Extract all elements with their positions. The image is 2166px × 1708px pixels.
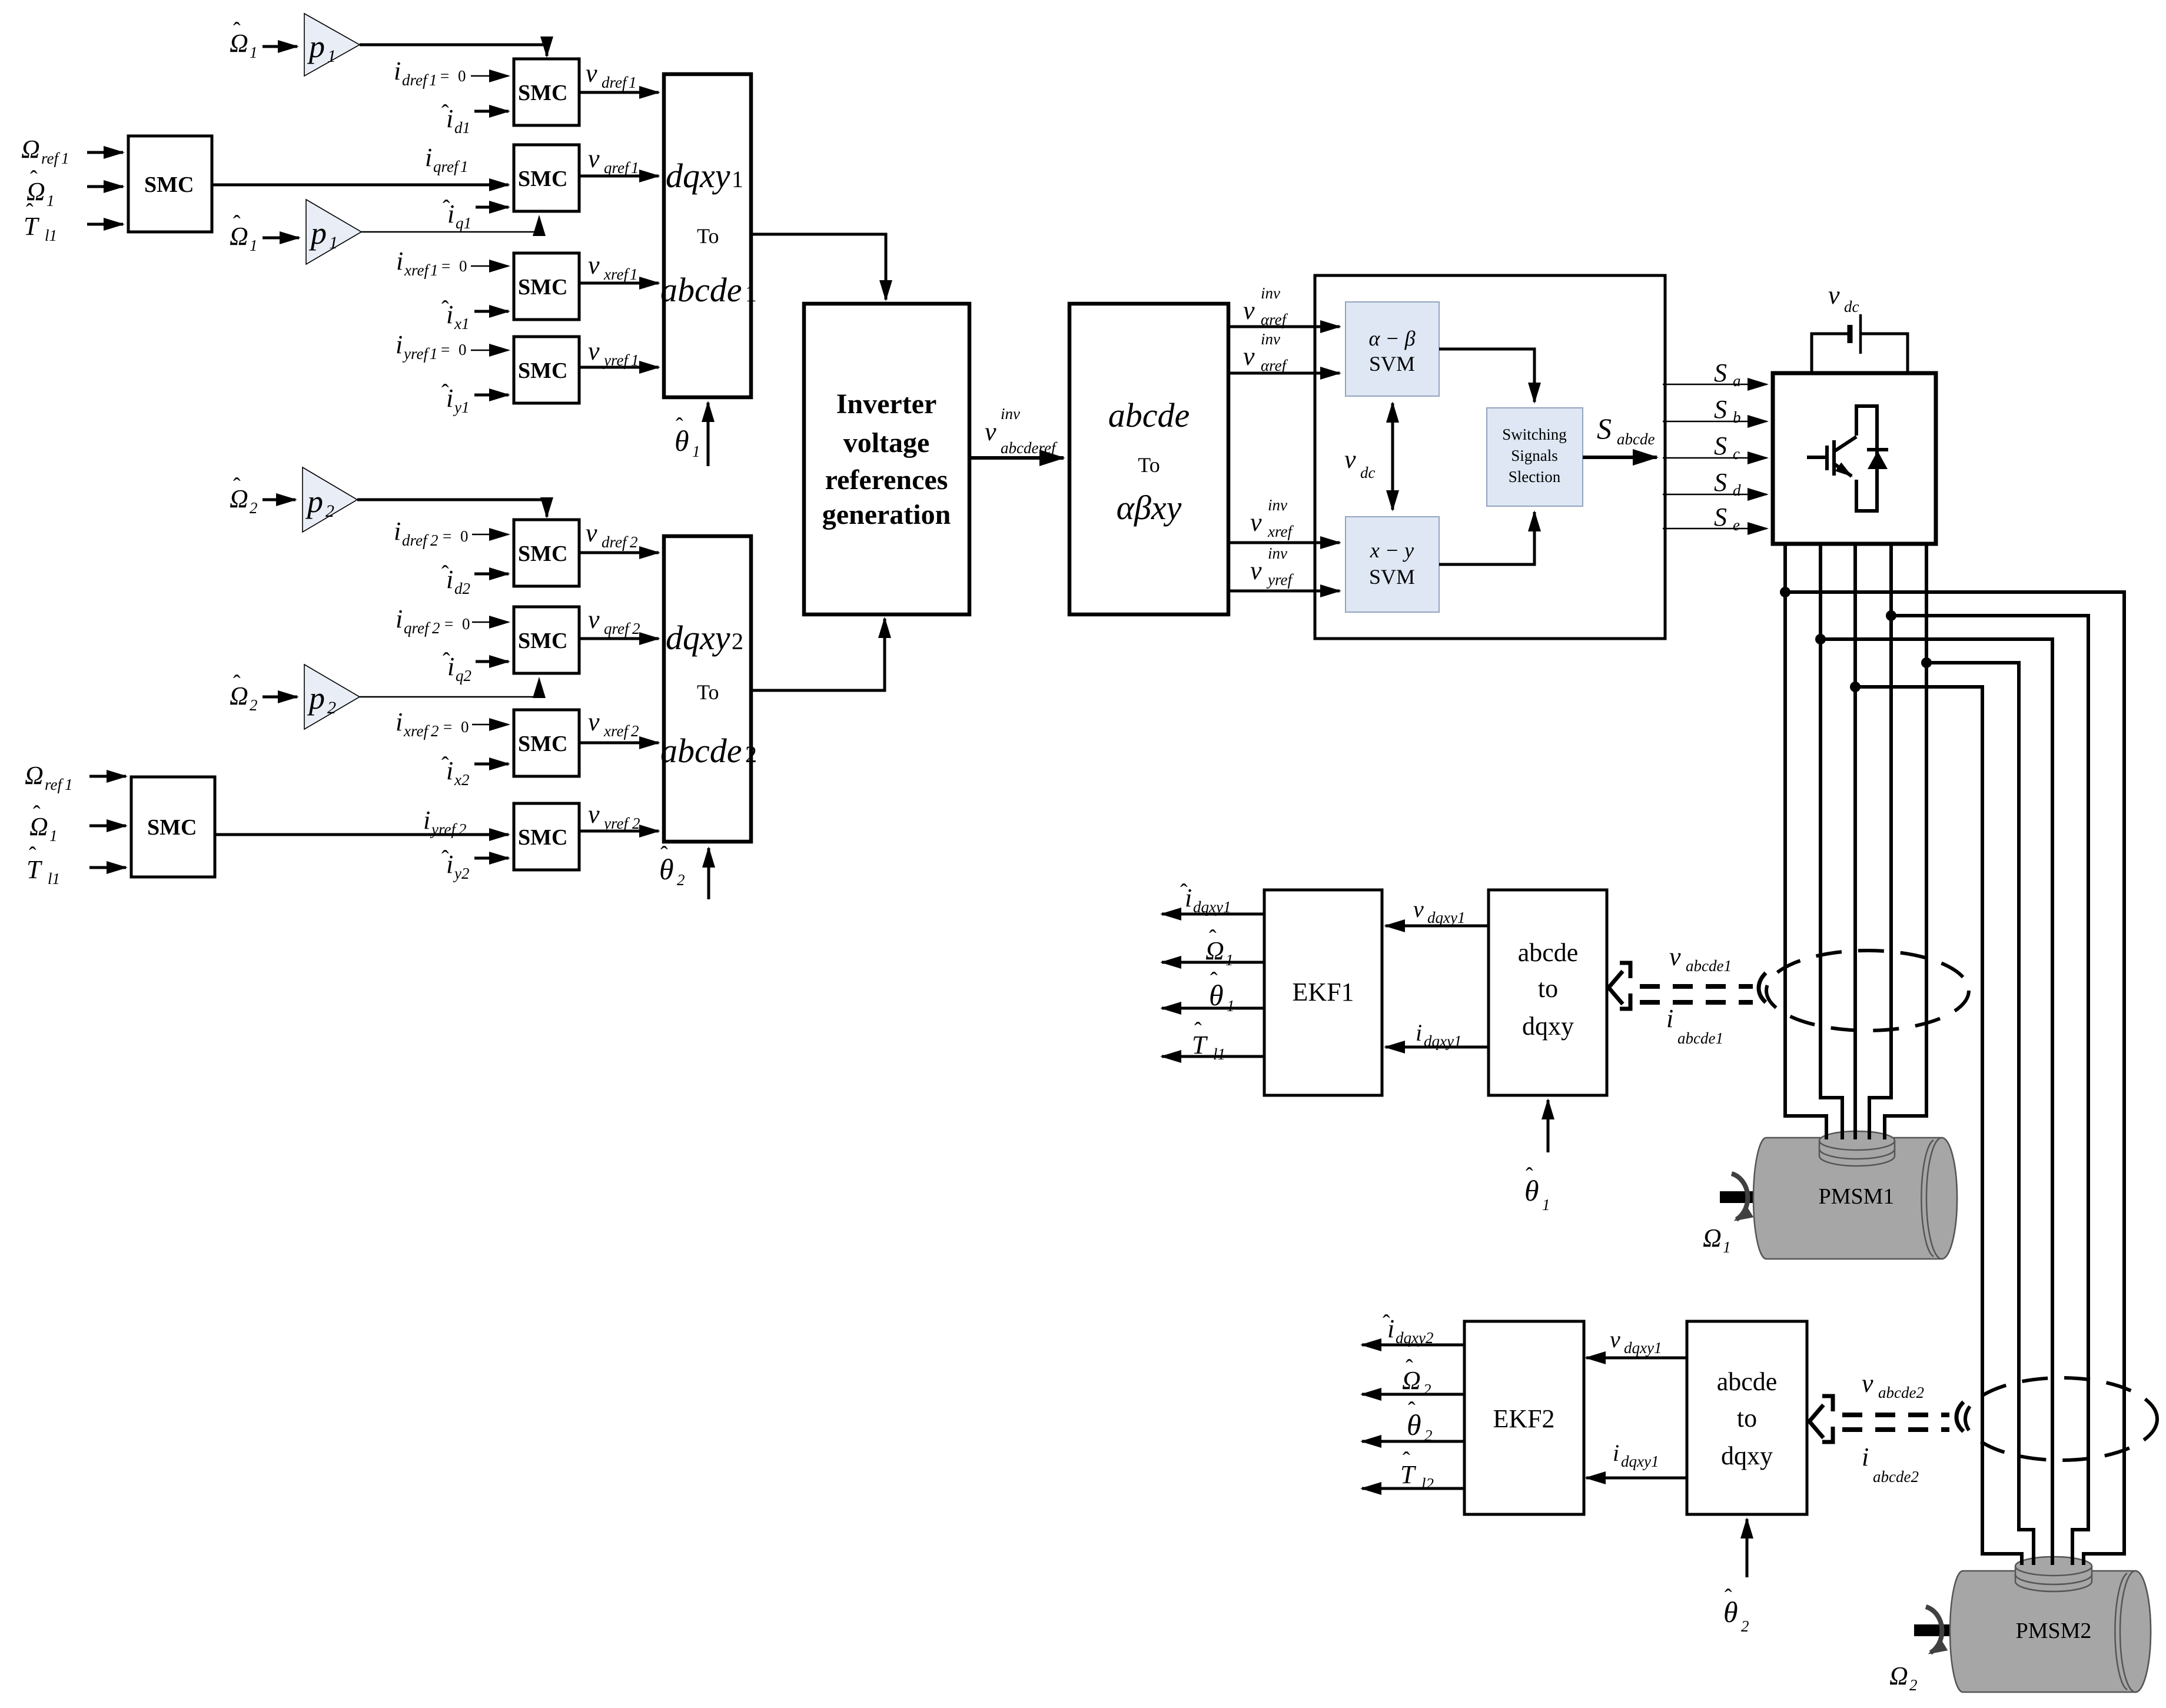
svg-text:αβxy: αβxy bbox=[1117, 489, 1182, 527]
svg-text:x2: x2 bbox=[454, 771, 469, 789]
svg-text:SVM: SVM bbox=[1369, 565, 1415, 589]
svg-text:Ω: Ω bbox=[1889, 1662, 1908, 1690]
svg-text:S: S bbox=[1714, 358, 1727, 387]
svg-text:Switching: Switching bbox=[1502, 426, 1567, 443]
svg-text:2: 2 bbox=[1423, 1381, 1431, 1398]
svg-text:1: 1 bbox=[630, 265, 638, 283]
svg-text:1: 1 bbox=[327, 46, 336, 66]
svg-text:ˆ: ˆ bbox=[1526, 1164, 1533, 1188]
svg-text:abcde2: abcde2 bbox=[1878, 1384, 1924, 1401]
svg-text:abcderef: abcderef bbox=[1001, 439, 1058, 457]
svg-text:ˆ: ˆ bbox=[660, 842, 668, 867]
svg-text:1: 1 bbox=[1723, 1238, 1731, 1256]
svg-text:p: p bbox=[307, 29, 325, 64]
svg-text:Ω: Ω bbox=[21, 135, 40, 164]
svg-text:yref: yref bbox=[1266, 571, 1294, 589]
svg-text:1: 1 bbox=[732, 166, 743, 192]
svg-text:dqxy2: dqxy2 bbox=[1396, 1329, 1433, 1347]
svg-text:PMSM2: PMSM2 bbox=[2016, 1619, 2092, 1643]
svg-text:q2: q2 bbox=[456, 667, 471, 684]
svg-text:v: v bbox=[1250, 556, 1262, 585]
svg-text:ˆ: ˆ bbox=[441, 846, 449, 871]
svg-text:=: = bbox=[443, 527, 451, 545]
svg-text:ˆ: ˆ bbox=[441, 561, 449, 586]
svg-text:2: 2 bbox=[632, 620, 640, 637]
svg-text:ˆ: ˆ bbox=[1180, 880, 1188, 905]
svg-text:1: 1 bbox=[745, 280, 757, 307]
svg-text:b: b bbox=[1733, 408, 1741, 426]
svg-text:SMC: SMC bbox=[144, 172, 194, 197]
svg-text:to: to bbox=[1538, 974, 1558, 1003]
svg-text:dref: dref bbox=[402, 531, 429, 549]
svg-text:2: 2 bbox=[1741, 1617, 1749, 1635]
svg-text:ˆ: ˆ bbox=[233, 671, 241, 696]
svg-text:=: = bbox=[441, 341, 450, 358]
svg-text:1: 1 bbox=[46, 192, 55, 210]
svg-text:y1: y1 bbox=[453, 398, 469, 416]
svg-text:1: 1 bbox=[49, 827, 58, 845]
svg-text:dqxy1: dqxy1 bbox=[1424, 1032, 1461, 1050]
svg-text:v: v bbox=[1250, 508, 1262, 537]
svg-text:v: v bbox=[1610, 1326, 1620, 1353]
svg-text:e: e bbox=[1733, 516, 1740, 534]
svg-text:dqxy1: dqxy1 bbox=[1621, 1453, 1659, 1470]
svg-text:2: 2 bbox=[459, 820, 467, 838]
svg-text:SMC: SMC bbox=[518, 167, 567, 191]
svg-text:1: 1 bbox=[460, 158, 469, 175]
svg-text:EKF2: EKF2 bbox=[1493, 1404, 1554, 1433]
svg-text:αref: αref bbox=[1261, 311, 1288, 328]
svg-text:S: S bbox=[1714, 468, 1727, 497]
svg-text:abcde1: abcde1 bbox=[1686, 957, 1732, 975]
svg-text:To: To bbox=[697, 680, 719, 704]
svg-text:abcde: abcde bbox=[1617, 430, 1655, 448]
svg-text:dqxy: dqxy bbox=[1721, 1441, 1773, 1470]
svg-text:2: 2 bbox=[677, 871, 685, 889]
svg-text:dqxy: dqxy bbox=[1522, 1012, 1574, 1041]
svg-text:2: 2 bbox=[432, 619, 440, 637]
svg-text:1: 1 bbox=[1225, 951, 1234, 969]
svg-text:v: v bbox=[586, 519, 597, 547]
svg-text:ˆ: ˆ bbox=[1383, 1311, 1390, 1335]
svg-text:=: = bbox=[440, 67, 449, 85]
svg-text:a: a bbox=[1733, 372, 1741, 390]
svg-text:SVM: SVM bbox=[1369, 352, 1415, 376]
svg-text:EKF1: EKF1 bbox=[1292, 978, 1354, 1006]
svg-text:dc: dc bbox=[1844, 298, 1859, 315]
svg-text:1: 1 bbox=[250, 237, 258, 254]
svg-text:ˆ: ˆ bbox=[1406, 1355, 1413, 1380]
svg-text:2: 2 bbox=[1909, 1676, 1918, 1694]
svg-text:dref: dref bbox=[602, 74, 629, 91]
svg-text:p: p bbox=[305, 484, 323, 519]
svg-text:Ω: Ω bbox=[25, 761, 44, 790]
svg-text:0: 0 bbox=[462, 615, 470, 633]
svg-text:i: i bbox=[1416, 1019, 1422, 1046]
svg-text:abcde: abcde bbox=[660, 732, 742, 770]
svg-text:=: = bbox=[443, 718, 452, 736]
svg-text:1: 1 bbox=[430, 261, 438, 279]
svg-text:i: i bbox=[1862, 1443, 1869, 1471]
svg-text:1: 1 bbox=[65, 776, 73, 793]
svg-text:S: S bbox=[1714, 431, 1727, 460]
svg-text:l1: l1 bbox=[45, 227, 57, 244]
svg-text:SMC: SMC bbox=[518, 732, 567, 756]
svg-text:0: 0 bbox=[460, 527, 469, 545]
svg-text:inv: inv bbox=[1261, 330, 1280, 348]
svg-text:d1: d1 bbox=[454, 119, 470, 137]
svg-text:inv: inv bbox=[1261, 284, 1280, 302]
svg-text:i: i bbox=[425, 143, 432, 172]
svg-text:ref: ref bbox=[45, 776, 64, 793]
svg-text:v: v bbox=[588, 605, 600, 634]
svg-text:i: i bbox=[1613, 1440, 1619, 1466]
svg-text:ˆ: ˆ bbox=[443, 649, 450, 673]
svg-text:c: c bbox=[1733, 445, 1740, 463]
svg-text:0: 0 bbox=[459, 341, 467, 358]
svg-text:2: 2 bbox=[327, 698, 336, 717]
svg-text:inv: inv bbox=[1268, 496, 1287, 514]
svg-text:i: i bbox=[396, 330, 403, 359]
svg-text:αref: αref bbox=[1261, 357, 1288, 374]
svg-text:0: 0 bbox=[458, 67, 466, 85]
svg-text:2: 2 bbox=[732, 628, 743, 654]
svg-text:S: S bbox=[1714, 395, 1727, 424]
svg-text:i: i bbox=[396, 604, 403, 633]
svg-text:SMC: SMC bbox=[518, 629, 567, 653]
svg-text:Slection: Slection bbox=[1509, 468, 1561, 486]
svg-text:0: 0 bbox=[459, 257, 467, 275]
svg-text:ˆ: ˆ bbox=[29, 843, 36, 868]
svg-text:l1: l1 bbox=[1213, 1045, 1225, 1063]
svg-text:xref: xref bbox=[404, 261, 430, 279]
svg-text:v: v bbox=[1862, 1369, 1873, 1398]
svg-text:1: 1 bbox=[1542, 1196, 1550, 1214]
svg-text:qref: qref bbox=[604, 159, 631, 177]
svg-text:inv: inv bbox=[1001, 405, 1020, 423]
svg-text:v: v bbox=[588, 800, 600, 829]
svg-text:ˆ: ˆ bbox=[1209, 926, 1217, 951]
svg-text:v: v bbox=[1669, 942, 1681, 971]
svg-text:ˆ: ˆ bbox=[441, 380, 449, 405]
svg-text:ˆ: ˆ bbox=[233, 18, 241, 43]
svg-text:ˆ: ˆ bbox=[1210, 968, 1218, 993]
svg-text:generation: generation bbox=[822, 499, 951, 530]
svg-text:1: 1 bbox=[430, 345, 438, 363]
svg-text:i: i bbox=[396, 707, 403, 736]
svg-text:v: v bbox=[1344, 445, 1356, 474]
svg-text:ˆ: ˆ bbox=[1408, 1398, 1416, 1423]
svg-text:1: 1 bbox=[692, 443, 700, 460]
svg-text:=: = bbox=[441, 257, 450, 275]
svg-text:i: i bbox=[423, 806, 430, 835]
svg-text:v: v bbox=[985, 417, 996, 446]
svg-text:SMC: SMC bbox=[518, 358, 567, 383]
svg-text:S: S bbox=[1714, 503, 1727, 531]
svg-text:2: 2 bbox=[325, 501, 334, 521]
svg-text:SMC: SMC bbox=[518, 825, 567, 850]
svg-text:x − y: x − y bbox=[1370, 539, 1414, 562]
svg-text:qref: qref bbox=[404, 619, 431, 637]
svg-text:Signals: Signals bbox=[1511, 447, 1558, 464]
svg-text:l2: l2 bbox=[1421, 1475, 1434, 1493]
svg-text:2: 2 bbox=[250, 499, 258, 517]
svg-text:α − β: α − β bbox=[1368, 327, 1415, 350]
svg-text:1: 1 bbox=[429, 71, 437, 89]
svg-text:Ω: Ω bbox=[1703, 1224, 1722, 1252]
svg-text:2: 2 bbox=[631, 722, 639, 740]
svg-text:abcde: abcde bbox=[660, 271, 742, 309]
svg-text:0: 0 bbox=[461, 718, 469, 736]
svg-text:1: 1 bbox=[629, 74, 637, 91]
svg-text:PMSM1: PMSM1 bbox=[1819, 1184, 1895, 1209]
svg-text:qref: qref bbox=[433, 158, 460, 175]
svg-text:ˆ: ˆ bbox=[443, 196, 450, 221]
svg-text:1: 1 bbox=[61, 149, 69, 167]
svg-text:v: v bbox=[1828, 281, 1840, 310]
svg-text:i: i bbox=[394, 517, 401, 546]
svg-text:v: v bbox=[1243, 296, 1255, 325]
svg-text:SMC: SMC bbox=[147, 815, 197, 840]
svg-text:ˆ: ˆ bbox=[441, 297, 449, 321]
svg-text:dqxy1: dqxy1 bbox=[1427, 909, 1465, 926]
svg-text:v: v bbox=[588, 144, 600, 173]
svg-text:abcde2: abcde2 bbox=[1873, 1468, 1919, 1486]
svg-text:d2: d2 bbox=[454, 580, 470, 597]
svg-text:v: v bbox=[1243, 342, 1255, 371]
svg-text:dqxy1: dqxy1 bbox=[1624, 1339, 1662, 1357]
svg-text:y2: y2 bbox=[453, 865, 469, 882]
svg-text:SMC: SMC bbox=[518, 541, 567, 566]
svg-text:abcde: abcde bbox=[1717, 1367, 1778, 1396]
svg-text:2: 2 bbox=[430, 531, 438, 549]
svg-text:SMC: SMC bbox=[518, 275, 567, 300]
svg-text:ˆ: ˆ bbox=[1403, 1448, 1410, 1473]
svg-text:ˆ: ˆ bbox=[676, 414, 683, 438]
svg-text:dqxy1: dqxy1 bbox=[1193, 898, 1231, 916]
svg-text:q1: q1 bbox=[456, 214, 471, 232]
svg-text:i: i bbox=[1666, 1004, 1673, 1033]
svg-text:2: 2 bbox=[745, 741, 757, 767]
svg-text:ˆ: ˆ bbox=[30, 167, 38, 191]
svg-text:v: v bbox=[588, 337, 600, 365]
svg-text:dref: dref bbox=[402, 71, 429, 89]
svg-text:qref: qref bbox=[604, 620, 631, 637]
svg-text:i: i bbox=[394, 57, 401, 85]
svg-text:ref: ref bbox=[41, 149, 60, 167]
svg-text:v: v bbox=[588, 251, 600, 280]
svg-text:xref: xref bbox=[403, 722, 430, 740]
svg-text:x1: x1 bbox=[454, 315, 469, 333]
svg-text:=: = bbox=[444, 615, 453, 633]
svg-text:p: p bbox=[307, 680, 325, 716]
svg-text:2: 2 bbox=[250, 696, 258, 714]
svg-text:2: 2 bbox=[431, 722, 439, 740]
svg-text:To: To bbox=[697, 224, 719, 248]
svg-text:ˆ: ˆ bbox=[233, 211, 241, 236]
svg-text:ˆ: ˆ bbox=[33, 802, 41, 826]
svg-text:Inverter: Inverter bbox=[836, 388, 937, 420]
svg-text:1: 1 bbox=[1227, 997, 1235, 1015]
svg-text:1: 1 bbox=[631, 159, 639, 177]
svg-text:xref: xref bbox=[1267, 523, 1294, 540]
svg-text:S: S bbox=[1597, 412, 1612, 445]
svg-text:2: 2 bbox=[1424, 1427, 1433, 1444]
svg-text:voltage: voltage bbox=[843, 427, 930, 458]
svg-text:2: 2 bbox=[630, 533, 638, 551]
svg-text:ˆ: ˆ bbox=[441, 101, 449, 125]
svg-text:v: v bbox=[588, 707, 600, 736]
svg-text:yref: yref bbox=[430, 820, 457, 838]
svg-text:yref: yref bbox=[402, 345, 430, 363]
svg-text:ˆ: ˆ bbox=[233, 474, 241, 499]
svg-text:v: v bbox=[586, 59, 597, 88]
svg-text:To: To bbox=[1138, 453, 1160, 477]
svg-text:SMC: SMC bbox=[518, 81, 567, 105]
svg-text:i: i bbox=[396, 247, 403, 275]
svg-text:dqxy: dqxy bbox=[666, 619, 730, 657]
svg-text:abcde1: abcde1 bbox=[1677, 1029, 1723, 1047]
svg-text:ˆ: ˆ bbox=[1725, 1585, 1732, 1610]
svg-text:abcde: abcde bbox=[1108, 396, 1190, 434]
svg-text:d: d bbox=[1733, 481, 1741, 499]
svg-text:xref: xref bbox=[603, 265, 630, 283]
svg-text:ˆ: ˆ bbox=[441, 753, 449, 777]
svg-text:xref: xref bbox=[603, 722, 630, 740]
svg-text:1: 1 bbox=[250, 44, 258, 61]
svg-text:ˆ: ˆ bbox=[1194, 1018, 1202, 1043]
svg-text:dref: dref bbox=[602, 533, 629, 551]
svg-text:abcde: abcde bbox=[1518, 938, 1579, 967]
svg-text:dqxy: dqxy bbox=[666, 157, 730, 195]
svg-text:p: p bbox=[308, 215, 327, 251]
svg-text:inv: inv bbox=[1268, 544, 1287, 562]
svg-text:1: 1 bbox=[329, 233, 338, 252]
svg-text:ˆ: ˆ bbox=[26, 200, 34, 224]
svg-text:references: references bbox=[825, 464, 948, 496]
svg-text:l1: l1 bbox=[48, 870, 60, 888]
svg-text:to: to bbox=[1737, 1404, 1757, 1433]
svg-text:v: v bbox=[1413, 896, 1424, 922]
svg-text:dc: dc bbox=[1360, 464, 1376, 481]
